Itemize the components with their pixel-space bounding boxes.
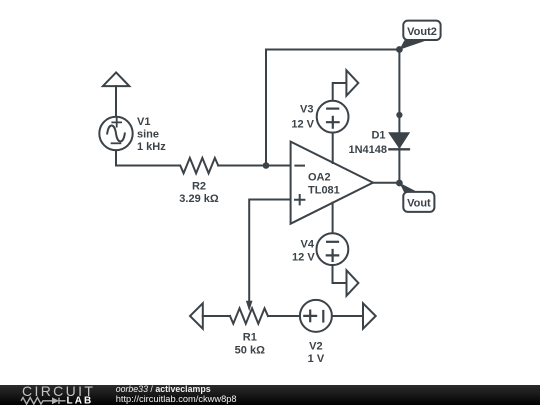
- svg-text:http://circuitlab.com/ckww8p8: http://circuitlab.com/ckww8p8: [116, 394, 237, 404]
- svg-text:12 V: 12 V: [292, 252, 315, 264]
- svg-text:1 kHz: 1 kHz: [137, 141, 166, 153]
- svg-text:Vout2: Vout2: [407, 26, 437, 38]
- svg-text:50 kΩ: 50 kΩ: [235, 345, 265, 357]
- svg-text:OA2: OA2: [308, 172, 331, 184]
- svg-text:LAB: LAB: [67, 395, 94, 405]
- svg-text:V3: V3: [300, 104, 313, 116]
- svg-text:TL081: TL081: [308, 184, 340, 196]
- svg-text:Vout: Vout: [407, 197, 431, 209]
- svg-text:R2: R2: [192, 181, 206, 193]
- svg-text:V1: V1: [137, 116, 150, 128]
- svg-text:V2: V2: [309, 340, 322, 352]
- svg-text:12 V: 12 V: [291, 118, 314, 130]
- svg-text:D1: D1: [371, 129, 385, 141]
- svg-text:1 V: 1 V: [308, 353, 325, 365]
- svg-text:V4: V4: [301, 239, 315, 251]
- svg-text:1N4148: 1N4148: [348, 144, 387, 156]
- svg-text:3.29 kΩ: 3.29 kΩ: [179, 193, 219, 205]
- svg-text:R1: R1: [243, 332, 257, 344]
- svg-text:sine: sine: [137, 129, 159, 141]
- svg-text:oorbe33 / activeclamps: oorbe33 / activeclamps: [116, 384, 211, 394]
